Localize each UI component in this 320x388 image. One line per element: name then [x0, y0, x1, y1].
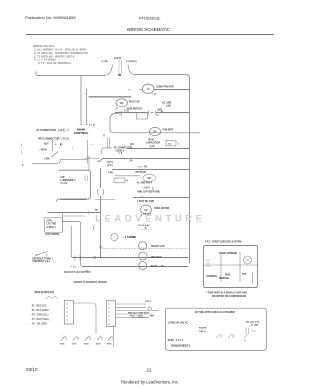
svg-text:J BK: J BK — [44, 157, 50, 160]
zigzag — [46, 296, 58, 299]
small relay box — [166, 141, 176, 146]
M1 wire right — [154, 89, 190, 91]
left rail lower segment — [100, 196, 102, 258]
switch row — [61, 336, 113, 340]
svg-text:FREZ MOTOR: FREZ MOTOR — [154, 208, 169, 210]
svg-text:ƒƒ: ƒƒ — [103, 134, 106, 137]
svg-text:SW1: SW1 — [60, 344, 65, 346]
thick wire — [133, 316, 149, 318]
svg-text:△: △ — [243, 339, 246, 342]
svg-text:LED 1: LED 1 — [145, 301, 152, 303]
svg-text:Y WHT BK TWR: Y WHT BK TWR — [137, 201, 155, 203]
svg-text:◧: ◧ — [60, 143, 62, 146]
svg-text:FAN MTR: FAN MTR — [163, 128, 174, 131]
svg-text:SW5: SW5 — [107, 344, 112, 346]
bus hump right arc — [128, 65, 136, 75]
svg-text:∿›: ∿› — [91, 144, 94, 147]
svg-text:Rendered by LeadVenture, Inc.: Rendered by LeadVenture, Inc. — [121, 380, 179, 385]
svg-text:P3 - GRN (SCL): P3 - GRN (SCL) — [32, 315, 49, 317]
left mid wire — [48, 212, 101, 214]
svg-text:5. T3 - BLK-W TERMINAL: 5. T3 - BLK-W TERMINAL — [38, 61, 72, 65]
plug junction dot — [118, 74, 121, 75]
wire end ticks — [80, 124, 89, 126]
svg-text:P5 - YEL (INT): P5 - YEL (INT) — [32, 323, 47, 325]
right rail — [189, 78, 191, 263]
UI connector 2 — [106, 301, 115, 327]
neutral bold wire — [89, 96, 132, 98]
connector horizontal — [102, 148, 112, 154]
cross tick — [99, 246, 102, 248]
left arrow — [92, 256, 95, 259]
switch diagonal — [53, 152, 58, 157]
defrost limit switch — [36, 252, 47, 256]
svg-text:LPF DEUX: LPF DEUX — [135, 172, 147, 174]
header rule — [26, 34, 274, 36]
left part divider — [60, 199, 87, 201]
svg-text:DEFROST TERM. 1: DEFROST TERM. 1 — [32, 258, 53, 260]
wire drop 2 — [86, 89, 88, 124]
bus hump left arc — [104, 65, 112, 76]
svg-text:P1 - RED (5V): P1 - RED (5V) — [32, 306, 47, 308]
svg-text:×: × — [178, 143, 180, 146]
fan motor M3 — [149, 127, 160, 135]
M1 stub left — [141, 88, 143, 90]
svg-text:EF: EF — [145, 210, 149, 212]
svg-text:RUN MOTOR: RUN MOTOR — [127, 107, 142, 110]
wires from box — [61, 212, 63, 232]
wire drop 1 — [80, 76, 82, 124]
coil marks — [85, 176, 88, 182]
svg-text:N (WHITE): N (WHITE) — [126, 61, 137, 63]
svg-text:RUN: RUN — [225, 274, 230, 276]
svg-text:COMMON: COMMON — [206, 276, 217, 278]
svg-text:2 BK: 2 BK — [108, 172, 113, 174]
svg-text:P2 - BLK (GND): P2 - BLK (GND) — [32, 310, 49, 312]
tick below M4 — [152, 187, 155, 189]
svg-text:4 L AMP DUI 4: 4 L AMP DUI 4 — [137, 181, 153, 184]
svg-text:FRONT UI CONTROL BOARD: FRONT UI CONTROL BOARD — [74, 281, 107, 284]
sensor circle S1 — [139, 242, 147, 250]
bracket — [93, 225, 94, 231]
svg-text:B CYL — W: B CYL — W — [151, 266, 164, 268]
svg-text:FFUS2613L: FFUS2613L — [139, 16, 161, 21]
svg-text:CAP 2: CAP 2 — [199, 330, 206, 333]
svg-text:DEFROST HEATER 120V: DEFROST HEATER 120V — [64, 271, 91, 274]
defrost heater motor M4 — [143, 174, 156, 181]
junction dot — [161, 111, 163, 113]
short line — [115, 175, 140, 177]
left rail upper segment — [100, 168, 102, 188]
run capacitor text — [146, 139, 160, 148]
PTC internals — [207, 260, 210, 266]
svg-text:LTG THE: LTG THE — [47, 224, 57, 226]
svg-text:· · · · ·: · · · · · — [60, 334, 66, 336]
svg-text:OL: OL — [168, 143, 172, 145]
svg-text:PART - 5 0 4 2: PART - 5 0 4 2 — [168, 339, 184, 342]
svg-text:14: 14 — [156, 114, 159, 117]
svg-text:C BOX 1: C BOX 1 — [47, 227, 57, 229]
dashed mid line — [101, 248, 189, 250]
svg-text:(F.F.): (F.F.) — [107, 164, 113, 167]
svg-text:▼ 6: ▼ 6 — [118, 152, 123, 155]
svg-text:P.T.C. START (DEVICE) SYSTEM: P.T.C. START (DEVICE) SYSTEM — [205, 241, 241, 244]
short vertical wire — [88, 156, 90, 171]
svg-text:L&N: L&N — [166, 105, 171, 107]
svg-text:RED BLK GRN WHT: RED BLK GRN WHT — [128, 312, 149, 314]
defrost connectors — [75, 256, 81, 261]
svg-text:03/10: 03/10 — [26, 367, 38, 372]
svg-text:T̲R̲A̲N̲S̲P̲A̲R̲E̲N̲T̲ ̲2̲: T̲R̲A̲N̲S̲P̲A̲R̲E̲N̲T̲ ̲2̲ — [170, 344, 191, 347]
MAIN CONTROL label — [74, 127, 89, 134]
svg-text:□ □: □ □ — [140, 194, 144, 197]
svg-text:PTC: PTC — [242, 274, 247, 276]
UI wires right — [116, 304, 152, 317]
svg-text:SER: SER — [150, 315, 155, 317]
svg-text:AD LED 2 (F): AD LED 2 (F) — [246, 320, 260, 323]
svg-text:AC LINE: AC LINE — [162, 102, 172, 105]
bottom line — [83, 266, 189, 268]
UI wire to right — [74, 303, 96, 333]
divider row 1 — [112, 169, 190, 171]
svg-text:2 1 J2: 2 1 J2 — [89, 125, 96, 127]
svg-text:IN THIS APPLIANCE IS COVERED: IN THIS APPLIANCE IS COVERED — [195, 311, 235, 314]
svg-text:≈ 120 V: ≈ 120 V — [142, 186, 150, 189]
svg-text:4 μF: 4 μF — [150, 145, 155, 148]
svg-text:⋮: ⋮ — [71, 146, 73, 151]
svg-text:C 2a: C 2a — [152, 94, 157, 96]
M5 lead down — [140, 214, 142, 217]
svg-text:A B B: A B B — [114, 56, 121, 60]
control board top wire — [57, 170, 91, 201]
svg-text:—RED: —RED — [39, 148, 47, 151]
line row A — [115, 112, 148, 114]
svg-text:(DEFROST L.S.): (DEFROST L.S.) — [32, 261, 50, 263]
svg-text:FR2 CONNECTOR 〖J1-3〗: FR2 CONNECTOR 〖J1-3〗 — [38, 137, 70, 141]
relay coil box — [114, 178, 125, 183]
wire right from connector — [127, 148, 189, 150]
svg-text:AT CONNECTOR 〖J1-1〗 1: AT CONNECTOR 〖J1-1〗 1 — [36, 128, 69, 132]
UI connector 1 — [64, 301, 73, 324]
compressor motor M2 — [116, 99, 128, 107]
svg-text:MOUNTED ON COMPRESSOR: MOUNTED ON COMPRESSOR — [212, 295, 247, 298]
svg-text:U̲S̲E̲R̲ ̲I̲N̲T̲E̲R̲F̲A̲C̲E̲: U̲S̲E̲R̲ ̲I̲N̲T̲E̲R̲F̲A̲C̲E̲ — [34, 291, 55, 294]
svg-text:WIRING SCHEMATIC: WIRING SCHEMATIC — [127, 27, 170, 32]
inline connector J3 — [98, 189, 104, 195]
svg-text:2L R(F): 2L R(F) — [251, 325, 259, 327]
svg-text:NO: NO — [131, 144, 135, 146]
step corner wire — [110, 113, 200, 133]
svg-text:BLK: BLK — [44, 142, 49, 145]
svg-text:START WINDING: START WINDING — [219, 252, 238, 255]
wire into inner box — [85, 157, 99, 159]
svg-text:SW4: SW4 — [96, 343, 101, 346]
svg-text:4 1 16: 4 1 16 — [60, 182, 67, 185]
svg-text:SHORT CAP: SHORT CAP — [151, 245, 165, 248]
svg-text:CONTROL: CONTROL — [74, 131, 89, 135]
capacitor marks — [116, 111, 123, 118]
PTC box — [204, 246, 258, 288]
svg-text:EVAP: EVAP — [130, 236, 137, 239]
svg-text:14: 14 — [130, 159, 133, 162]
svg-text:∿: ∿ — [128, 89, 131, 92]
svg-text:5 (BK) 4: 5 (BK) 4 — [116, 149, 125, 152]
step wire left — [32, 159, 87, 163]
svg-text:COND FAN MTR: COND FAN MTR — [156, 86, 174, 89]
svg-text:WINDING: WINDING — [219, 278, 229, 280]
svg-text:SW3: SW3 — [84, 344, 89, 346]
svg-text:LEADS (PLUG) AC: LEADS (PLUG) AC — [168, 322, 189, 325]
svg-text:22: 22 — [146, 368, 152, 373]
svg-text:⎛: ⎛ — [21, 144, 22, 147]
UI pin list — [32, 306, 49, 326]
svg-text:2FR CON̲T̲R̲L̲: 2FR CON̲T̲R̲L̲ — [45, 234, 60, 236]
plug wires — [118, 60, 120, 75]
inner box top — [104, 158, 190, 160]
svg-text:RUN CAP: RUN CAP — [129, 100, 140, 103]
svg-text:CTRL: CTRL — [47, 220, 54, 222]
triangle mark — [116, 107, 118, 109]
svg-text:LF: LF — [147, 88, 150, 91]
svg-text:P4 - WHT (SDA): P4 - WHT (SDA) — [32, 318, 49, 321]
thermostat box — [45, 218, 63, 233]
svg-text:BK: BK — [95, 210, 99, 212]
svg-text:SW2: SW2 — [72, 344, 77, 346]
board text — [60, 176, 76, 185]
wire drop to relay — [86, 140, 88, 164]
svg-text:RC: RC — [120, 103, 124, 105]
warranty box — [165, 308, 266, 350]
divider row 2 — [133, 197, 190, 199]
arrow on wire — [88, 211, 91, 214]
svg-text:∿: ∿ — [55, 143, 57, 146]
svg-text:LINE: LINE — [157, 109, 163, 111]
svg-text:RED WHT: RED WHT — [151, 257, 162, 259]
evap fan motor M5 — [141, 205, 152, 214]
svg-text:FILTER: FILTER — [199, 328, 207, 330]
svg-text:L1 (W): L1 (W) — [101, 61, 108, 63]
sensor circle S2 — [139, 252, 147, 260]
svg-text:LEADVENTURE: LEADVENTURE — [95, 214, 205, 224]
svg-text:2: 2 — [22, 164, 24, 167]
svg-text:⎝: ⎝ — [21, 151, 22, 154]
bus wire left with curl — [36, 72, 105, 76]
line through defrost thermostat — [73, 257, 188, 259]
small box under row A — [137, 113, 148, 119]
svg-text:Publication No: 5995561858: Publication No: 5995561858 — [25, 15, 76, 20]
bus wire right — [135, 75, 190, 79]
LED circle — [148, 307, 151, 310]
notes block — [33, 44, 88, 65]
motor M1 — [142, 84, 154, 94]
svg-text:C 10: C 10 — [124, 110, 130, 112]
line through LED — [151, 309, 159, 311]
connector pair — [149, 111, 156, 115]
sensor circle S3 — [139, 262, 147, 270]
small motor circle — [111, 233, 118, 240]
svg-text:AND CAP DEFR AND: AND CAP DEFR AND — [137, 190, 160, 193]
line row A right — [156, 112, 190, 114]
svg-text:DH: DH — [148, 178, 152, 180]
connector pins top — [107, 138, 110, 148]
svg-text:—◇— A3: —◇— A3 — [137, 165, 148, 168]
